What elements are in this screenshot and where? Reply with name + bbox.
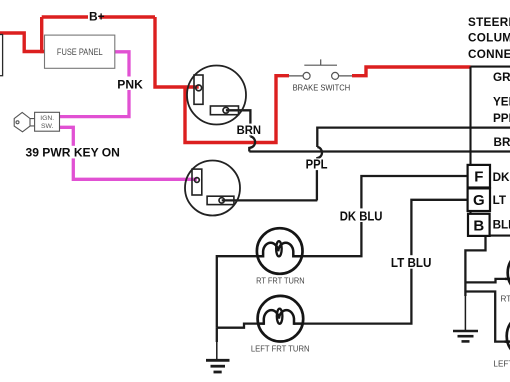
wire red riser to B+ line	[40, 17, 43, 53]
svg-text:CONNECTOR: CONNECTOR	[468, 48, 510, 61]
wire LEFT FRT TURN to ground	[217, 324, 258, 328]
wire RT FRT TURN to ground	[217, 256, 257, 328]
wire BRN row to connector	[249, 150, 510, 152]
pin terminal	[223, 107, 229, 113]
svg-text:COLUMN: COLUMN	[468, 32, 510, 45]
label PNK	[115, 77, 145, 91]
pin terminal	[196, 85, 202, 91]
ignition switch SW1	[35, 112, 60, 131]
svg-text:LEFT FRT TURN: LEFT FRT TURN	[251, 344, 310, 353]
flasher U2	[185, 161, 240, 216]
svg-text:RT FRT TURN: RT FRT TURN	[256, 276, 305, 285]
svg-text:GRN: GRN	[493, 71, 510, 84]
svg-text:PPL: PPL	[493, 112, 510, 125]
svg-text:BRN: BRN	[237, 123, 261, 137]
svg-text:STEERING: STEERING	[468, 16, 510, 29]
wire PPL row from connector	[317, 128, 510, 147]
wire B+ red from battery feed	[0, 17, 471, 143]
wire thin stem to ground right	[464, 295, 466, 331]
title STEERING COLUMN CONNECTOR	[468, 16, 510, 61]
fuse panel	[45, 35, 115, 68]
wire red down to flasher U1	[155, 17, 199, 87]
wire DK BLU from connector F	[302, 176, 467, 256]
label BRN	[235, 124, 263, 136]
svg-text:F: F	[474, 169, 483, 186]
svg-text:B: B	[473, 217, 484, 234]
wire red brake switch to connector	[352, 67, 471, 76]
svg-text:RT RR TURN: RT RR TURN	[501, 295, 510, 304]
svg-text:LEFT RR TURN: LEFT RR TURN	[493, 360, 510, 369]
label B+	[88, 11, 99, 22]
label 39 PWR KEY ON	[24, 146, 122, 159]
lamp LEFT FRT TURN	[257, 296, 303, 342]
wire red feed into fuse panel	[0, 33, 45, 52]
brake switch S1	[289, 59, 352, 79]
wire thin stem to ground left	[216, 341, 218, 360]
connector pin F	[468, 165, 490, 188]
lamp RT FRT TURN	[257, 228, 303, 274]
label PPL	[304, 158, 330, 170]
flasher U1	[187, 66, 246, 125]
svg-text:SW.: SW.	[41, 123, 54, 130]
ground left	[206, 360, 230, 372]
label DK BLU	[338, 208, 385, 222]
wire BRN from flasher U1	[226, 110, 251, 136]
connector pin B	[468, 214, 490, 236]
svg-text:DK BLU: DK BLU	[340, 208, 383, 223]
wire PNK ignition switch to flasher U2	[60, 127, 197, 179]
left cut-off box	[0, 35, 3, 76]
wire PNK fuse panel to ignition switch	[60, 52, 197, 180]
svg-text:LT BLU: LT BLU	[391, 255, 432, 270]
hop over BRN wire	[316, 147, 322, 158]
svg-text:BRN: BRN	[494, 136, 510, 149]
pin terminal	[219, 198, 224, 203]
svg-text:DK BLU: DK BLU	[493, 171, 510, 184]
lamp LEFT RR TURN (clipped)	[505, 313, 510, 359]
connector row labels	[493, 71, 510, 231]
svg-text:YEL: YEL	[493, 95, 510, 108]
wire to RT RR TURN bulb	[465, 279, 506, 283]
svg-text:BRAKE SWITCH: BRAKE SWITCH	[293, 83, 351, 93]
wire ground stem left	[216, 328, 218, 342]
label LT BLU	[389, 255, 434, 269]
wire LT BLU from connector G	[303, 200, 467, 324]
svg-text:PNK: PNK	[117, 77, 143, 91]
wire PPL down to flasher U2	[316, 158, 318, 200]
lamp RT RR TURN (clipped)	[505, 250, 510, 296]
wire B+ horizontal	[42, 15, 155, 18]
svg-text:G: G	[473, 192, 485, 209]
svg-text:IGN.: IGN.	[40, 115, 54, 122]
black wires	[217, 110, 510, 342]
svg-text:FUSE PANEL: FUSE PANEL	[57, 47, 103, 57]
wire red branch to brake switch	[185, 76, 289, 143]
connector pin G	[468, 188, 490, 211]
svg-text:BLK: BLK	[493, 218, 510, 231]
svg-text:39 PWR KEY ON: 39 PWR KEY ON	[26, 146, 120, 160]
svg-text:PPL: PPL	[306, 158, 328, 172]
ground right	[453, 331, 478, 341]
wire BLK from connector B	[465, 236, 485, 296]
steering column connector	[471, 67, 510, 236]
key symbol	[14, 113, 34, 132]
wire to LEFT RR TURN bulb	[465, 292, 507, 342]
svg-text:LT BLU: LT BLU	[493, 194, 510, 207]
svg-text:B+: B+	[89, 10, 105, 24]
hop over red wire	[249, 137, 255, 152]
pin terminal	[195, 178, 200, 183]
